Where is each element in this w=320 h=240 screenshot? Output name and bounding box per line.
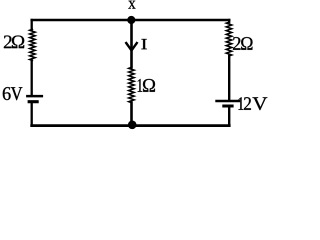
battery B1 6V long plate	[26, 95, 43, 98]
wire left middle	[31, 60, 33, 95]
wire middle lower	[130, 103, 133, 126]
resistor R2 1ohm middle	[129, 67, 135, 102]
label 2 ohm (right resistor value)	[233, 37, 253, 50]
label I (current)	[141, 39, 146, 49]
label 6V (left battery value)	[3, 87, 23, 100]
resistor R1 2ohm left	[30, 29, 36, 60]
label 2 ohm (left resistor value)	[4, 36, 24, 49]
wire top	[32, 19, 230, 22]
wire right bottom lead	[228, 108, 230, 126]
current arrow I	[126, 43, 137, 50]
label 12V (right battery value)	[239, 97, 268, 110]
wire right middle	[228, 56, 230, 100]
label x (node X)	[128, 1, 135, 9]
wire left top lead	[31, 20, 33, 29]
battery B2 12V long plate	[215, 100, 240, 103]
wire left bottom lead	[31, 103, 33, 125]
wire middle upper	[130, 20, 133, 67]
label 1 ohm (middle resistor value)	[138, 79, 155, 92]
battery B1 6V short plate	[28, 100, 39, 103]
node junction dot bottom	[128, 121, 137, 130]
wire right top lead	[228, 20, 230, 22]
node X junction dot top	[127, 16, 135, 24]
resistor R3 2ohm right	[226, 22, 232, 56]
battery B2 12V short plate	[222, 105, 233, 108]
wire bottom	[32, 124, 230, 127]
